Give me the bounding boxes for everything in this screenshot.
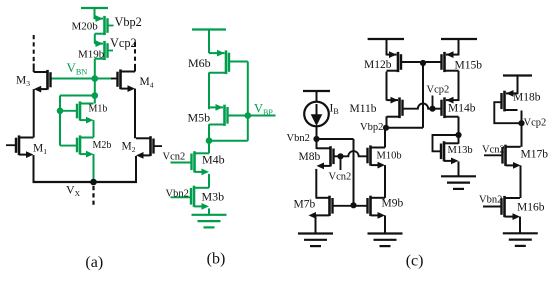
svg-text:(a): (a) — [85, 254, 103, 271]
svg-text:M5b: M5b — [188, 111, 211, 125]
svg-text:(c): (c) — [406, 253, 424, 270]
svg-text:M6b: M6b — [188, 56, 211, 70]
svg-text:M9b: M9b — [382, 198, 404, 210]
svg-text:Vcn2: Vcn2 — [482, 145, 505, 156]
svg-text:M8b: M8b — [299, 151, 321, 163]
svg-text:M18b: M18b — [513, 92, 541, 104]
svg-text:Vcn2: Vcn2 — [163, 152, 186, 163]
svg-text:(b): (b) — [207, 251, 226, 268]
svg-text:Vbp2: Vbp2 — [115, 15, 142, 29]
svg-text:M19b: M19b — [78, 49, 105, 61]
svg-text:M12b: M12b — [364, 59, 392, 71]
svg-text:M13b: M13b — [448, 145, 473, 156]
svg-text:M10b: M10b — [377, 151, 402, 162]
svg-text:Vbp2: Vbp2 — [360, 122, 383, 133]
svg-text:Vcp2: Vcp2 — [427, 85, 450, 96]
svg-text:Vbn2: Vbn2 — [166, 189, 189, 200]
svg-text:M11b: M11b — [350, 103, 377, 115]
svg-text:M4b: M4b — [202, 153, 225, 167]
svg-text:M7b: M7b — [294, 199, 316, 211]
svg-text:M3b: M3b — [202, 190, 225, 204]
svg-text:M1b: M1b — [89, 104, 108, 115]
svg-text:M16b: M16b — [517, 202, 545, 214]
svg-text:Vcp2: Vcp2 — [524, 118, 547, 129]
svg-text:M2b: M2b — [93, 140, 112, 151]
svg-text:Vbn2: Vbn2 — [287, 133, 310, 144]
svg-text:M17b: M17b — [521, 149, 549, 161]
svg-text:Vcn2: Vcn2 — [329, 172, 352, 183]
svg-text:M14b: M14b — [448, 103, 476, 115]
svg-text:Vbn2: Vbn2 — [479, 195, 502, 206]
svg-text:M20b: M20b — [72, 21, 99, 33]
svg-text:M15b: M15b — [455, 60, 483, 72]
svg-text:Vcp2: Vcp2 — [110, 36, 137, 50]
